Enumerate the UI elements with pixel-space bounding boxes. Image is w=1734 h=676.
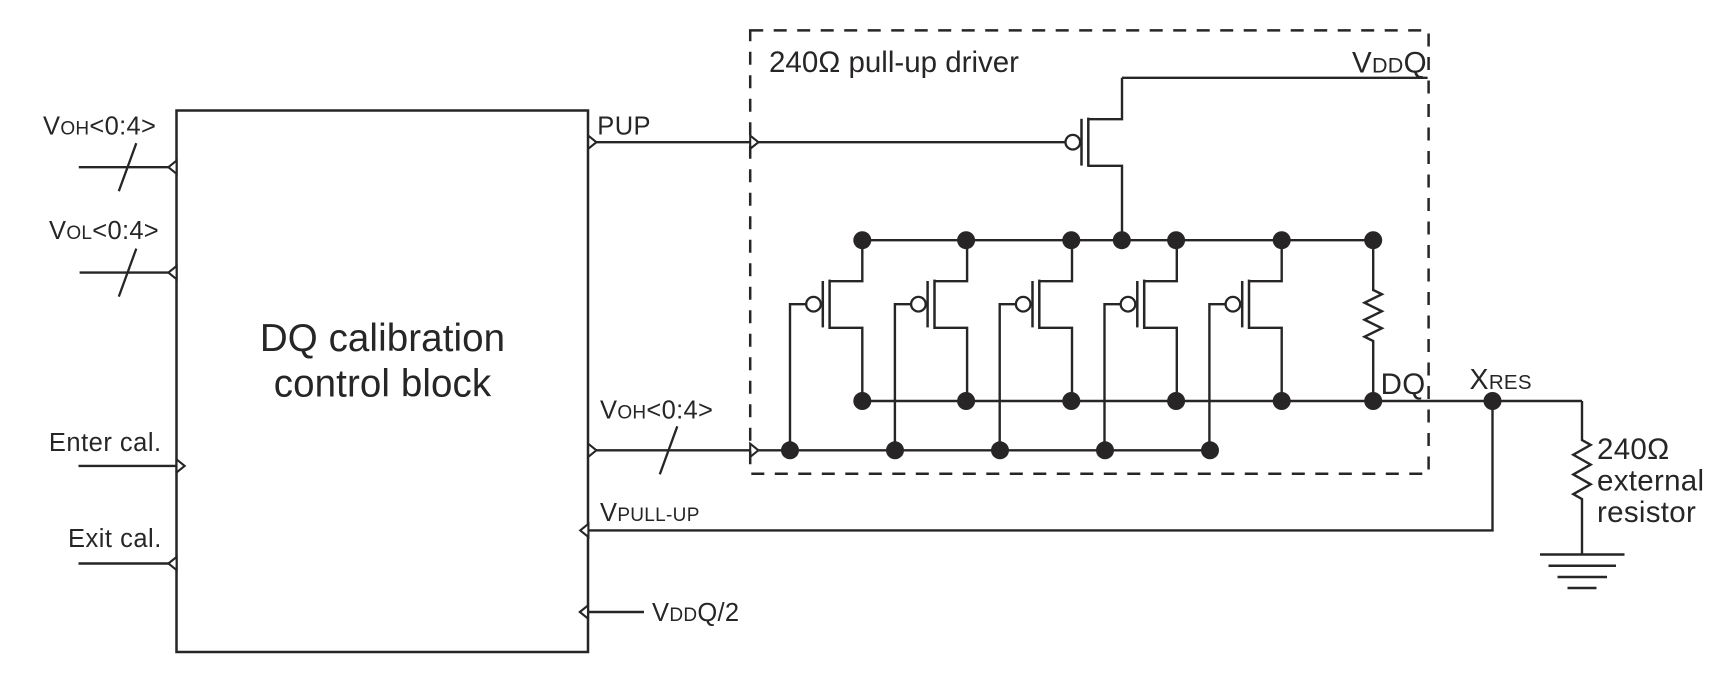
svg-text:control block: control block [274, 363, 492, 406]
wire: VDDQ rail [1122, 77, 1428, 79]
junction node on DQ rail #2 [957, 392, 975, 410]
control block U1 outline [177, 111, 589, 653]
transistor Q1 gate bar [822, 281, 825, 327]
transistor Q2 drain lead to DQ rail [935, 328, 968, 401]
arrowhead PUP entering pull-up driver box [750, 136, 758, 149]
transistor Q4 channel bar [1143, 280, 1146, 329]
wire: PUP net from block to Q6 gate [588, 141, 1066, 143]
transistor Q2 (PMOS leg 2 of pull-up bank) [895, 240, 967, 450]
port arrowhead VOL<0:4> at block edge [168, 266, 176, 279]
wire: VPULL-UP net from XRES node back to block [588, 401, 1493, 530]
junction node on source bus #7 [1364, 231, 1382, 249]
dashed enclosure: 240-ohm pull-up driver [750, 30, 1428, 473]
transistor Q2 source lead to source bus [935, 240, 968, 281]
transistor Q5 drain lead to DQ rail [1249, 328, 1282, 401]
port arrowhead VOH<0:4> at block edge [168, 161, 176, 174]
transistor Q4 drain lead to DQ rail [1144, 328, 1177, 401]
junction node on VOH gate bus #5 [1201, 441, 1219, 459]
wire: VOH<0:4> gate bus net [588, 449, 1210, 451]
junction node on VOH gate bus #4 [1096, 441, 1114, 459]
transistor Q4 gate bar [1136, 281, 1139, 327]
transistor Q3 gate wire from bus [1000, 304, 1016, 450]
junction node on DQ rail #4 [1167, 392, 1185, 410]
transistor Q5 (PMOS leg 5 of pull-up bank) [1209, 240, 1281, 450]
junction node on DQ rail #5 [1273, 392, 1291, 410]
junction node on source bus #1 [853, 231, 871, 249]
svg-text:Exit cal.: Exit cal. [68, 525, 162, 553]
transistor Q1 (PMOS leg 1 of pull-up bank) [790, 240, 862, 450]
resistor R1 (driver series resistor) [1364, 240, 1381, 401]
transistor Q6 (main PMOS pull-up) [1066, 78, 1123, 240]
transistor Q3 gate bubble [1016, 297, 1031, 312]
svg-text:Enter cal.: Enter cal. [49, 429, 162, 457]
transistor Q5 source lead to source bus [1249, 240, 1282, 281]
transistor Q6 gate bar [1080, 119, 1083, 166]
junction node on source bus #6 [1273, 231, 1291, 249]
wire: DQ net rail [862, 400, 1582, 402]
junction node on source bus #3 [1062, 231, 1080, 249]
svg-text:XRES: XRES [1470, 364, 1532, 396]
ground bar 1 [1540, 553, 1625, 556]
transistor Q3 source lead to source bus [1039, 240, 1072, 281]
transistor Q1 source lead to source bus [830, 240, 863, 281]
transistor Q4 gate wire from bus [1105, 304, 1121, 450]
ground bar 2 [1549, 565, 1617, 568]
port arrowhead PUP at block edge [588, 136, 596, 149]
junction node on VOH gate bus #1 [781, 441, 799, 459]
svg-text:VOH<0:4>: VOH<0:4> [43, 113, 156, 141]
transistor Q3 drain lead to DQ rail [1039, 328, 1072, 401]
port arrowhead VPULL-UP at block edge [580, 524, 588, 537]
transistor Q6 channel bar [1087, 118, 1090, 167]
transistor Q1 channel bar [828, 280, 831, 329]
svg-text:240Ω: 240Ω [1597, 433, 1669, 466]
transistor Q3 gate bar [1031, 281, 1034, 327]
svg-text:VOL<0:4>: VOL<0:4> [49, 217, 159, 245]
wire: VOL<0:4> input lead [80, 271, 177, 273]
transistor Q1 drain lead to DQ rail [830, 328, 863, 401]
junction node on VOH gate bus #2 [886, 441, 904, 459]
svg-text:VDDQ: VDDQ [1352, 47, 1427, 80]
transistor Q2 channel bar [933, 280, 936, 329]
transistor Q6 gate bubble [1066, 135, 1081, 150]
junction node on DQ rail #6 [1364, 392, 1382, 410]
transistor Q4 (PMOS leg 4 of pull-up bank) [1105, 240, 1177, 450]
bus slash on VOH<0:4> input [119, 143, 137, 191]
transistor Q6 source lead to VDDQ [1088, 78, 1122, 119]
transistor Q4 gate bubble [1121, 297, 1136, 312]
port arrowhead VDDQ/2 at block edge [580, 605, 588, 618]
resistor R2 (240-ohm external resistor) [1573, 401, 1590, 554]
transistor Q3 channel bar [1038, 280, 1041, 329]
transistor Q4 source lead to source bus [1144, 240, 1177, 281]
transistor Q2 gate wire from bus [895, 304, 911, 450]
node XRES junction dot [1484, 392, 1502, 410]
arrowhead VOH<0:4> entering pull-up driver box [750, 444, 758, 457]
wire: VOH<0:4> input lead [79, 166, 177, 168]
transistor Q3 (PMOS leg 3 of pull-up bank) [1000, 240, 1072, 450]
transistor Q2 gate bubble [911, 297, 926, 312]
junction node on DQ rail #3 [1062, 392, 1080, 410]
ground bar 4 [1568, 587, 1597, 590]
transistor Q1 gate bubble [806, 297, 821, 312]
junction node on source bus #2 [957, 231, 975, 249]
transistor Q5 gate bubble [1226, 297, 1241, 312]
svg-text:240Ω pull-up driver: 240Ω pull-up driver [769, 46, 1019, 79]
svg-text:VPULL-UP: VPULL-UP [600, 499, 700, 527]
bus slash on VOL<0:4> input [119, 249, 137, 297]
svg-text:resistor: resistor [1597, 496, 1696, 529]
junction node on source bus #4 [1113, 231, 1131, 249]
transistor Q2 gate bar [926, 281, 929, 327]
ground symbol (earth) [1540, 555, 1625, 589]
wire: Exit cal. input lead [79, 562, 177, 564]
transistor Q1 gate wire from bus [790, 304, 806, 450]
bus slash on VOH<0:4> output [660, 426, 678, 474]
svg-text:DQ calibration: DQ calibration [260, 317, 505, 360]
svg-text:VDDQ/2: VDDQ/2 [652, 599, 739, 627]
svg-text:DQ: DQ [1381, 368, 1426, 401]
port arrowhead VOH<0:4> at block edge [588, 444, 596, 457]
wire: source bus of binary-weighted PMOS bank [862, 239, 1373, 241]
svg-text:VOH<0:4>: VOH<0:4> [600, 397, 713, 425]
junction node on DQ rail #1 [853, 392, 871, 410]
wire: VDDQ/2 input lead [588, 611, 644, 613]
svg-text:external: external [1597, 465, 1704, 498]
transistor Q6 drain lead to source bus [1088, 166, 1122, 240]
transistor Q5 channel bar [1248, 280, 1251, 329]
transistor Q5 gate bar [1241, 281, 1244, 327]
port arrowhead Enter cal. at block edge [177, 459, 185, 472]
svg-text:PUP: PUP [597, 113, 651, 141]
ground bar 3 [1558, 576, 1608, 579]
junction node on source bus #5 [1167, 231, 1185, 249]
junction node on VOH gate bus #3 [991, 441, 1009, 459]
port arrowhead Exit cal. at block edge [168, 557, 176, 570]
transistor Q5 gate wire from bus [1209, 304, 1225, 450]
wire: Enter cal. input lead [79, 465, 177, 467]
